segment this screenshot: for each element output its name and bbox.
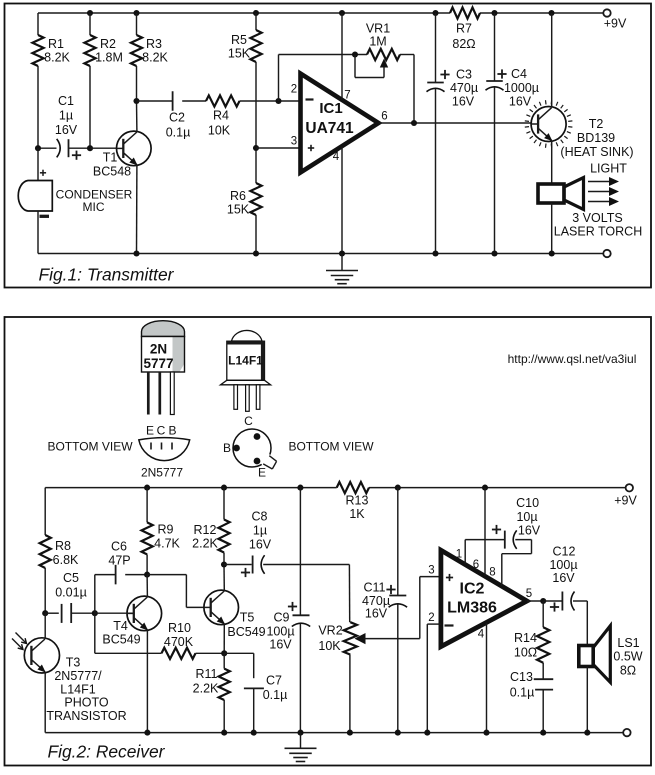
svg-text:1000µ: 1000µ bbox=[504, 81, 539, 95]
svg-text:C13: C13 bbox=[510, 670, 533, 684]
svg-text:2: 2 bbox=[291, 84, 297, 96]
panel frame Fig.1 bbox=[5, 4, 652, 288]
svg-text:E: E bbox=[258, 466, 266, 480]
svg-text:7: 7 bbox=[344, 90, 350, 102]
svg-text:C6: C6 bbox=[111, 540, 127, 554]
svg-text:R11: R11 bbox=[195, 667, 217, 681]
audio amplifier IC2 LM386 bbox=[441, 550, 527, 646]
svg-text:1: 1 bbox=[456, 549, 462, 561]
svg-text:R12: R12 bbox=[194, 523, 217, 537]
junction dot R5/R6/pin3 node bbox=[253, 145, 259, 151]
svg-text:3 VOLTS: 3 VOLTS bbox=[572, 211, 622, 225]
junction dot inverting input node bbox=[275, 98, 281, 104]
capacitor C5 0.01u bbox=[42, 610, 48, 616]
svg-text:8Ω: 8Ω bbox=[620, 664, 636, 678]
svg-text:8: 8 bbox=[489, 567, 495, 579]
svg-text:B: B bbox=[168, 424, 176, 438]
svg-text:C5: C5 bbox=[63, 571, 79, 585]
svg-text:C: C bbox=[157, 424, 166, 438]
svg-text:PHOTO: PHOTO bbox=[64, 696, 108, 710]
svg-text:16V: 16V bbox=[249, 538, 272, 552]
junction dot R12/T5 collector/C8 bbox=[221, 561, 227, 567]
svg-text:16V: 16V bbox=[552, 571, 575, 585]
svg-text:2N: 2N bbox=[150, 342, 167, 357]
resistor R1 8.2K bbox=[37, 13, 39, 35]
capacitor C12 100u 16V bbox=[561, 592, 563, 611]
svg-text:BD139: BD139 bbox=[577, 131, 615, 145]
wire: IC2 pin 2 to bottom bus bbox=[427, 623, 441, 625]
preset VR2 10K bbox=[348, 565, 350, 623]
svg-text:L14F1: L14F1 bbox=[228, 354, 263, 368]
resistor R4 10K bbox=[206, 95, 240, 106]
svg-text:1µ: 1µ bbox=[253, 524, 267, 538]
svg-text:0.1µ: 0.1µ bbox=[263, 688, 288, 702]
package drawing L14F1 (bottom view) bbox=[233, 429, 271, 467]
package drawing 2N5777 (front view) bbox=[142, 321, 185, 337]
svg-text:T2: T2 bbox=[589, 117, 604, 131]
wire: IC2 pin 4 to bottom bus bbox=[486, 623, 488, 733]
svg-text:IC1: IC1 bbox=[319, 100, 342, 117]
svg-text:LS1: LS1 bbox=[617, 636, 639, 650]
node R3/T1 collector to C2 bbox=[133, 98, 139, 104]
junction dots on transmitter bottom bus bbox=[133, 250, 139, 256]
svg-text:2N5777/: 2N5777/ bbox=[54, 669, 102, 683]
svg-text:+9V: +9V bbox=[614, 494, 637, 508]
svg-text:TRANSISTOR: TRANSISTOR bbox=[46, 709, 126, 723]
svg-text:2: 2 bbox=[428, 612, 434, 624]
svg-text:C4: C4 bbox=[511, 67, 527, 81]
capacitor C8 1u 16V bbox=[224, 564, 252, 566]
svg-text:MIC: MIC bbox=[83, 200, 105, 214]
terminal +9V (receiver) bbox=[626, 484, 633, 491]
capacitor C2 0.1u bbox=[172, 91, 174, 111]
svg-text:470K: 470K bbox=[164, 635, 194, 649]
svg-text:R5: R5 bbox=[231, 33, 247, 47]
svg-text:C: C bbox=[244, 414, 253, 428]
photo transistor T3 2N5777/L14F1 bbox=[24, 638, 59, 673]
svg-text:8.2K: 8.2K bbox=[44, 51, 70, 65]
resistor R13 1K bbox=[337, 482, 369, 493]
capacitor C3 470u 16V bbox=[435, 13, 437, 83]
capacitor C7 0.1u bbox=[224, 652, 254, 654]
resistor R6 15K bbox=[255, 148, 257, 183]
svg-text:Fig.1: Transmitter: Fig.1: Transmitter bbox=[39, 265, 175, 285]
capacitor C10 10u 16V with pins 1 and 8 bbox=[464, 540, 466, 565]
svg-text:8.2K: 8.2K bbox=[142, 51, 168, 65]
svg-text:10µ: 10µ bbox=[516, 510, 537, 524]
wire: IC2 output pin 5 bbox=[527, 600, 543, 602]
resistor R12 2.2K bbox=[223, 488, 225, 520]
svg-text:C8: C8 bbox=[252, 510, 268, 524]
svg-text:B: B bbox=[223, 441, 231, 455]
wire: VR1 right end down to output node bbox=[413, 55, 415, 124]
light arrows into T3 bbox=[16, 633, 27, 644]
svg-text:BOTTOM VIEW: BOTTOM VIEW bbox=[288, 440, 374, 454]
svg-text:16V: 16V bbox=[269, 638, 292, 652]
terminal negative (transmitter) bbox=[603, 250, 610, 257]
svg-text:3: 3 bbox=[291, 136, 297, 148]
resistor R14 10ohm bbox=[542, 601, 544, 627]
wire: feedback from pin2 node up to VR1 bbox=[278, 55, 280, 102]
transistor T5 BC549 bbox=[204, 590, 239, 625]
svg-text:4.7K: 4.7K bbox=[154, 537, 180, 551]
resistor R5 15K bbox=[255, 13, 257, 30]
svg-text:R9: R9 bbox=[158, 523, 174, 537]
resistor R9 4.7K bbox=[146, 488, 148, 523]
svg-text:C1: C1 bbox=[58, 94, 74, 108]
package drawing L14F1 (front view) bbox=[232, 330, 263, 341]
transistor T2 BD139 with heat sink rays bbox=[531, 107, 566, 142]
svg-text:E: E bbox=[146, 424, 154, 438]
capacitor C11 470u 16V bbox=[397, 488, 399, 596]
svg-text:1K: 1K bbox=[349, 507, 365, 521]
svg-text:10K: 10K bbox=[318, 639, 341, 653]
svg-text:R8: R8 bbox=[55, 539, 71, 553]
transistor T4 BC549 bbox=[127, 596, 162, 631]
resistor R11 2.2K bbox=[223, 653, 225, 668]
svg-text:(HEAT SINK): (HEAT SINK) bbox=[560, 145, 633, 159]
junction dots on receiver top bus bbox=[144, 485, 150, 491]
svg-text:16V: 16V bbox=[365, 607, 388, 621]
svg-text:6: 6 bbox=[381, 111, 387, 123]
terminal +9V (transmitter) bbox=[603, 9, 610, 16]
capacitor C9 100u 16V bbox=[299, 488, 301, 616]
svg-text:BOTTOM VIEW: BOTTOM VIEW bbox=[47, 440, 133, 454]
ground symbol (transmitter) bbox=[341, 254, 343, 271]
svg-text:BC549: BC549 bbox=[227, 625, 265, 639]
svg-text:4: 4 bbox=[333, 151, 340, 163]
preset VR1 1M bbox=[367, 49, 400, 60]
svg-text:R13: R13 bbox=[346, 494, 369, 508]
svg-text:R4: R4 bbox=[213, 109, 229, 123]
svg-text:VR2: VR2 bbox=[318, 624, 342, 638]
ground symbol (receiver) bbox=[300, 733, 302, 749]
capacitor C13 0.1u bbox=[534, 678, 554, 680]
panel frame Fig.2 bbox=[5, 317, 652, 766]
svg-text:47P: 47P bbox=[108, 554, 130, 568]
svg-text:5777: 5777 bbox=[143, 356, 173, 371]
svg-text:R10: R10 bbox=[168, 621, 191, 635]
svg-text:15K: 15K bbox=[227, 203, 250, 217]
laser torch (3 volts) bbox=[538, 184, 564, 203]
svg-text:2.2K: 2.2K bbox=[193, 682, 219, 696]
svg-text:C2: C2 bbox=[169, 111, 185, 125]
svg-text:VR1: VR1 bbox=[366, 22, 390, 36]
wire: ground bottom bus (transmitter) bbox=[38, 253, 603, 255]
svg-text:2.2K: 2.2K bbox=[192, 537, 218, 551]
capacitor C4 1000u 16V bbox=[494, 13, 496, 81]
resistor R3 8.2K bbox=[136, 13, 138, 35]
svg-text:16V: 16V bbox=[452, 95, 475, 109]
junction dot R9/C6/T4 collector bbox=[144, 572, 150, 578]
svg-text:6.8K: 6.8K bbox=[53, 553, 79, 567]
resistor R8 6.8K bbox=[44, 488, 46, 535]
wire: +9V top bus (transmitter) bbox=[38, 12, 450, 14]
svg-text:R6: R6 bbox=[230, 189, 246, 203]
resistor R7 82ohm bbox=[450, 7, 480, 18]
svg-text:R14: R14 bbox=[514, 631, 537, 645]
svg-text:15K: 15K bbox=[228, 47, 251, 61]
svg-text:0.5W: 0.5W bbox=[613, 650, 642, 664]
wire: +9V top bus (receiver) bbox=[45, 487, 337, 489]
svg-text:C10: C10 bbox=[516, 496, 539, 510]
svg-text:R7: R7 bbox=[456, 22, 472, 36]
svg-text:100µ: 100µ bbox=[266, 625, 294, 639]
svg-text:1.8M: 1.8M bbox=[95, 51, 123, 65]
svg-text:R1: R1 bbox=[48, 37, 64, 51]
svg-text:5: 5 bbox=[526, 588, 532, 600]
svg-text:T1: T1 bbox=[103, 151, 118, 165]
svg-text:1µ: 1µ bbox=[59, 109, 73, 123]
svg-text:LM386: LM386 bbox=[447, 600, 497, 617]
resistor R10 470K bbox=[162, 648, 196, 659]
svg-text:LIGHT: LIGHT bbox=[590, 162, 627, 176]
svg-text:C7: C7 bbox=[266, 674, 282, 688]
svg-text:100µ: 100µ bbox=[549, 558, 577, 572]
svg-text:C9: C9 bbox=[274, 611, 290, 625]
svg-text:L14F1: L14F1 bbox=[60, 683, 95, 697]
terminal negative (receiver) bbox=[623, 729, 630, 736]
svg-text:http://www.qsl.net/va3iul: http://www.qsl.net/va3iul bbox=[508, 352, 637, 366]
junction dots on transmitter top bus bbox=[87, 10, 93, 16]
svg-text:R3: R3 bbox=[146, 37, 162, 51]
capacitor C6 47P bbox=[94, 575, 96, 614]
svg-text:16V: 16V bbox=[518, 524, 541, 538]
transistor T1 BC548 bbox=[90, 147, 117, 149]
svg-text:0.1µ: 0.1µ bbox=[166, 126, 191, 140]
wire: R9 node to T5 base bbox=[147, 574, 186, 576]
svg-text:T3: T3 bbox=[66, 656, 81, 670]
svg-text:6: 6 bbox=[473, 559, 479, 571]
svg-text:+9V: +9V bbox=[604, 17, 627, 31]
svg-text:UA741: UA741 bbox=[305, 120, 354, 137]
op-amp IC1 UA741 bbox=[256, 147, 300, 149]
svg-text:16V: 16V bbox=[55, 123, 78, 137]
junction dots on receiver bottom bus bbox=[144, 730, 150, 736]
svg-text:T5: T5 bbox=[240, 611, 255, 625]
svg-text:0.01µ: 0.01µ bbox=[55, 586, 87, 600]
svg-text:1M: 1M bbox=[369, 35, 386, 49]
svg-text:0.1µ: 0.1µ bbox=[510, 686, 535, 700]
svg-text:R2: R2 bbox=[100, 37, 116, 51]
svg-text:LASER TORCH: LASER TORCH bbox=[554, 225, 642, 239]
wire: VR2 wiper to IC2 pin 3 bbox=[419, 577, 421, 639]
wire: T4 base down to R10 bbox=[94, 613, 96, 653]
svg-text:C12: C12 bbox=[553, 545, 576, 559]
svg-text:16V: 16V bbox=[509, 95, 532, 109]
svg-text:82Ω: 82Ω bbox=[452, 37, 475, 51]
wire: ground bottom bus (receiver) bbox=[45, 732, 623, 734]
svg-text:470µ: 470µ bbox=[450, 81, 478, 95]
svg-text:C11: C11 bbox=[363, 581, 385, 595]
svg-text:Fig.2: Receiver: Fig.2: Receiver bbox=[48, 742, 166, 762]
junction node C1/R1 and C1/R2 bbox=[35, 145, 41, 151]
condenser microphone MIC bbox=[37, 148, 39, 180]
light arrows bbox=[588, 181, 611, 183]
svg-text:10K: 10K bbox=[208, 124, 231, 138]
svg-text:IC2: IC2 bbox=[460, 580, 485, 597]
capacitor C1 1u 16V bbox=[38, 147, 57, 149]
svg-text:BC549: BC549 bbox=[102, 633, 140, 647]
svg-text:10Ω: 10Ω bbox=[514, 646, 537, 660]
svg-text:2N5777: 2N5777 bbox=[141, 466, 183, 480]
wire: IC2 pin 6 to +9V bus bbox=[484, 488, 486, 576]
svg-text:BC548: BC548 bbox=[93, 165, 131, 179]
svg-text:4: 4 bbox=[478, 629, 485, 641]
svg-text:3: 3 bbox=[428, 565, 434, 577]
svg-text:C3: C3 bbox=[456, 68, 472, 82]
loudspeaker LS1 0.5W 8ohm bbox=[586, 601, 588, 645]
junction dot T5 emitter node bbox=[221, 650, 227, 656]
wire: IC1 output pin 6 to T2 base bbox=[379, 122, 533, 124]
resistor R2 1.8M bbox=[89, 13, 91, 35]
svg-text:T4: T4 bbox=[113, 619, 128, 633]
